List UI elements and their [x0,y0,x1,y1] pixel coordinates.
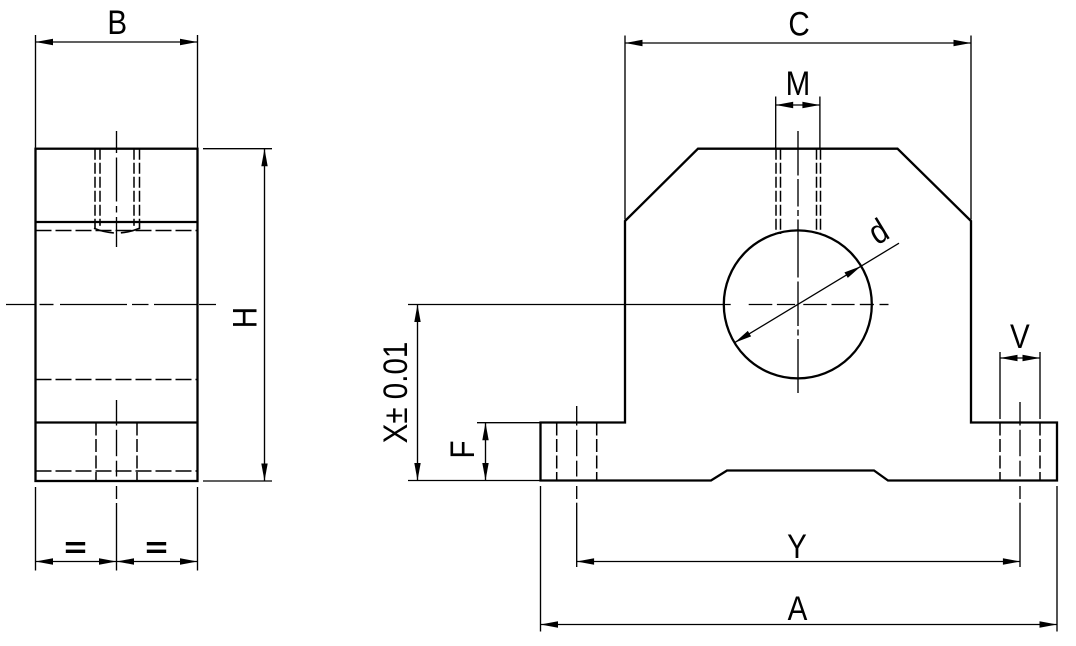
svg-text:V: V [1010,317,1030,355]
svg-text:F: F [443,440,481,458]
svg-text:C: C [788,4,809,42]
svg-text:X± 0.01: X± 0.01 [376,342,414,444]
svg-text:d: d [861,211,895,252]
svg-text:H: H [226,307,264,328]
svg-text:A: A [788,589,808,627]
svg-text:Y: Y [787,527,807,565]
svg-text:B: B [107,3,127,41]
svg-text:M: M [786,64,811,102]
